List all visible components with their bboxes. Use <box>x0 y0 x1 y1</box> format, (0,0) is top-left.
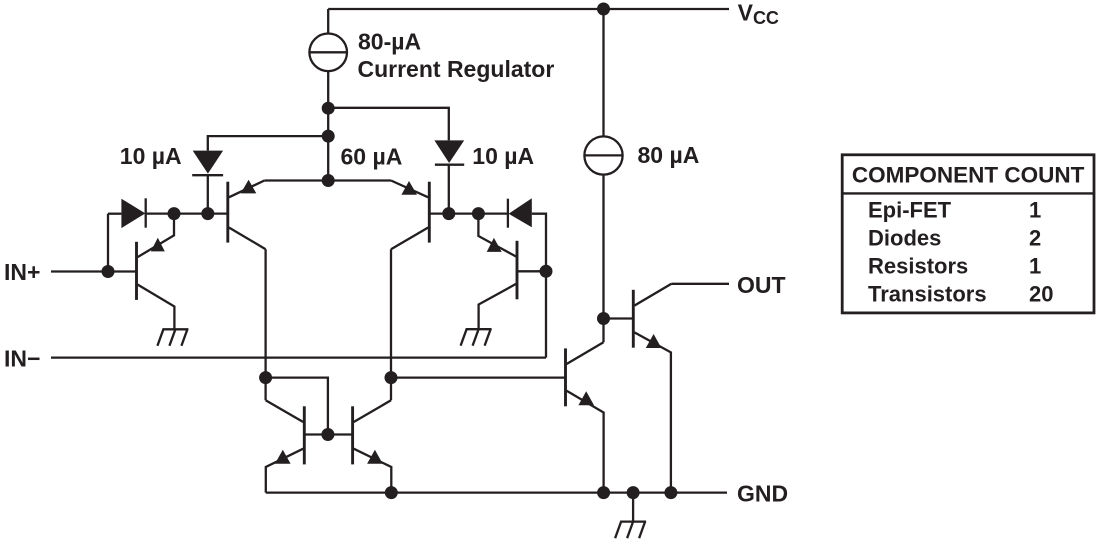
svg-text:Resistors: Resistors <box>868 253 968 278</box>
svg-text:Current Regulator: Current Regulator <box>358 56 555 82</box>
wire: OUT lead <box>671 283 729 285</box>
node: bias node 2 <box>322 130 335 143</box>
svg-text:IN−: IN− <box>4 346 40 372</box>
wire: D4 anode to IN- riser <box>532 214 546 358</box>
node: GND rail junction 3 <box>627 486 640 499</box>
svg-text:COMPONENT COUNT: COMPONENT COUNT <box>852 163 1085 188</box>
table row Transistors <box>868 281 1053 306</box>
svg-text:10 µA: 10 µA <box>120 143 182 169</box>
wire: driver base lead <box>391 376 566 378</box>
wire: mirror base rail <box>304 433 352 435</box>
wire: left base rail <box>146 212 228 214</box>
wire: tail emitter rail <box>264 179 391 181</box>
transistor Q1 (left input follower) <box>137 214 175 330</box>
wire: IN+ vertical riser <box>107 214 109 272</box>
wire: I1 output column to bias node <box>327 71 329 180</box>
wire: bottom ground stem <box>632 493 634 522</box>
node: GND rail junction 4 <box>664 486 677 499</box>
node: mirror right junction <box>385 371 398 384</box>
wire: Q8 base lead <box>604 317 634 319</box>
node: output base node <box>597 312 610 325</box>
transistor Q6 (mirror right) <box>353 400 392 492</box>
svg-text:IN+: IN+ <box>4 259 40 285</box>
svg-text:1: 1 <box>1029 197 1041 222</box>
wire: I2 output column <box>602 175 604 343</box>
wire: Q2 collector drop <box>264 249 266 400</box>
wire: bias node 1 to diode D3 <box>328 108 449 141</box>
svg-text:Epi-FET: Epi-FET <box>868 197 952 222</box>
svg-text:Transistors: Transistors <box>868 281 987 306</box>
wire: I2 top lead <box>602 9 604 136</box>
node: right rail junction B <box>472 207 485 220</box>
node: GND rail junction 1 <box>385 486 398 499</box>
wire: right base rail <box>429 212 508 214</box>
node: mirror base junction <box>321 428 334 441</box>
transistor Q4 (right input follower) <box>478 214 546 330</box>
wire: D2 cathode down to left base rail <box>207 175 209 213</box>
svg-text:1: 1 <box>1029 253 1041 278</box>
wire: VCC top rail <box>328 8 729 10</box>
node: VCC rail junction <box>597 3 610 16</box>
current source I2 80 uA <box>584 136 622 174</box>
table row Diodes <box>868 225 1041 250</box>
current source I1 80-uA current regulator <box>309 34 347 72</box>
svg-text:60 µA: 60 µA <box>341 143 403 169</box>
node: tail node <box>322 174 335 187</box>
transistor Q3 (right differential) <box>391 181 429 250</box>
ground GND2 (right input) <box>461 329 492 346</box>
node: left rail junction A <box>168 207 181 220</box>
svg-text:10 µA: 10 µA <box>472 143 534 169</box>
wire: D1 anode lead <box>108 213 121 215</box>
svg-text:80 µA: 80 µA <box>638 142 700 168</box>
node: Q4 base junction <box>540 265 553 278</box>
svg-text:80-µA: 80-µA <box>358 29 421 55</box>
wire: I1 top lead <box>327 9 329 34</box>
table: component count box <box>842 155 1094 313</box>
ground GND1 (left input) <box>157 329 188 346</box>
transistor Q5 (mirror left) <box>266 400 305 492</box>
diode D3 (right 10 uA branch) <box>434 140 464 164</box>
node: mirror left junction <box>259 371 272 384</box>
svg-text:2: 2 <box>1029 225 1041 250</box>
wire: GND bottom rail <box>266 491 727 493</box>
diode D4 (right input clamp) <box>508 198 532 227</box>
node: right rail junction A <box>442 207 455 220</box>
table row Epi-FET <box>868 197 1041 222</box>
svg-text:Diodes: Diodes <box>868 225 941 250</box>
svg-text:VCC: VCC <box>738 0 779 28</box>
node: bias node 1 <box>322 102 335 115</box>
wire: IN+ lead <box>51 270 137 272</box>
wire: bias node 2 to diode D2 <box>208 136 328 151</box>
wire: mirror top link <box>266 378 328 435</box>
node: IN+ junction <box>102 265 115 278</box>
diode D2 (left 10 uA branch) <box>192 151 223 176</box>
transistor Q8 (output) <box>633 284 671 493</box>
transistor Q2 (left differential) <box>228 180 266 250</box>
wire: D3 cathode down to right base rail <box>448 165 450 214</box>
node: left rail junction B <box>201 207 214 220</box>
svg-text:20: 20 <box>1029 281 1053 306</box>
svg-text:OUT: OUT <box>737 272 786 298</box>
node: GND rail junction 2 <box>597 486 610 499</box>
diode D1 (left input clamp) <box>121 198 145 228</box>
wire: Q3 collector drop <box>390 249 392 400</box>
table row Resistors <box>868 253 1041 278</box>
svg-text:GND: GND <box>737 481 788 507</box>
transistor Q7 (output driver) <box>566 342 604 492</box>
wire: IN- lead <box>51 356 546 358</box>
ground GND3 (bottom) <box>615 522 646 539</box>
